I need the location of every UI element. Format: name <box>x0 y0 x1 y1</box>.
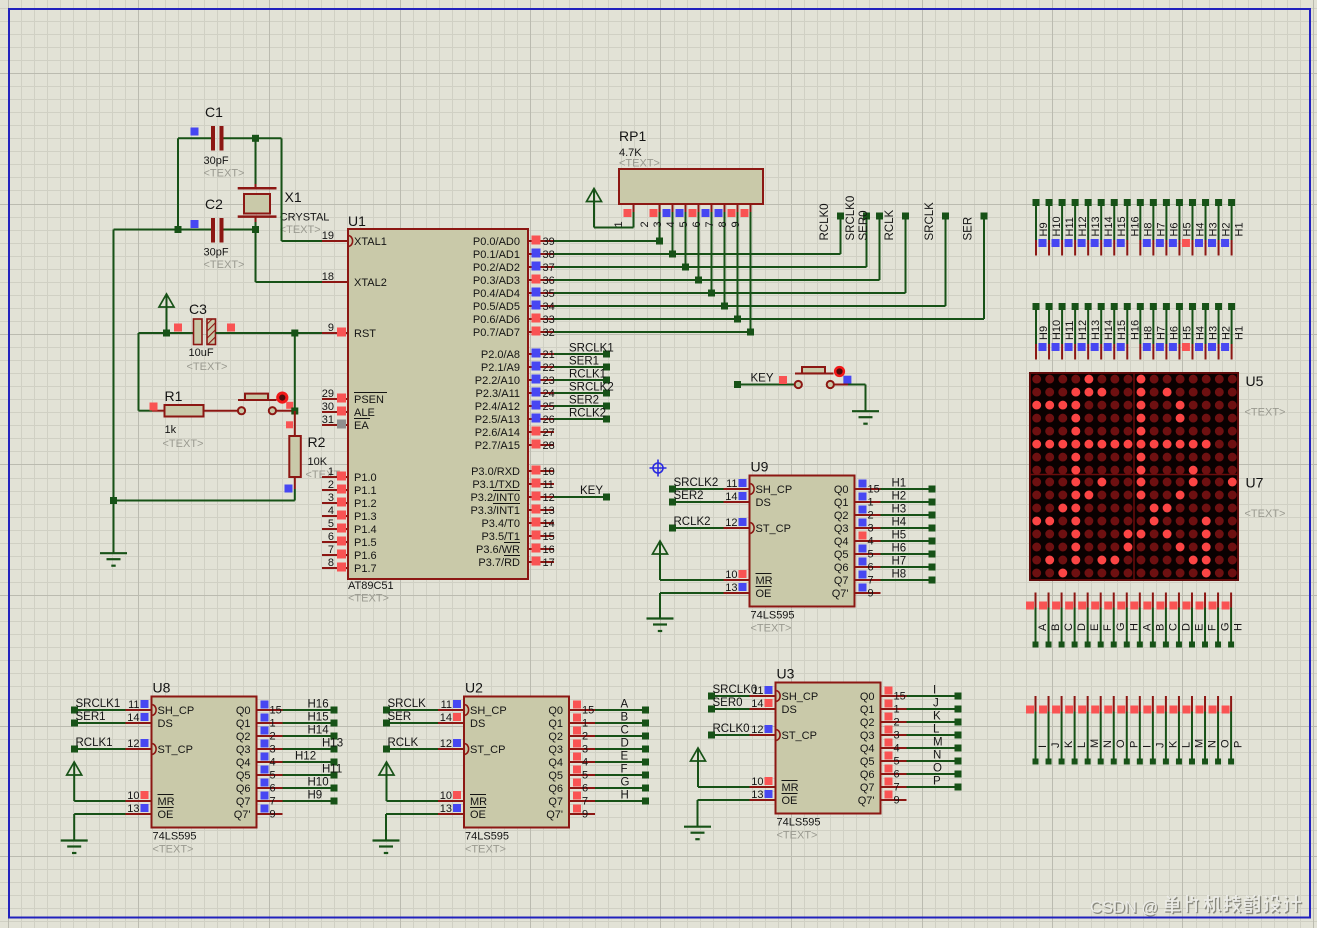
svg-text:G: G <box>1115 622 1127 631</box>
svg-text:E: E <box>1193 624 1205 631</box>
svg-text:10uF: 10uF <box>189 347 214 359</box>
node RCLK0 wire start (U3) <box>708 732 715 739</box>
svg-text:6: 6 <box>691 221 703 227</box>
node C2 state square <box>191 220 199 228</box>
wire net SER riser <box>983 216 985 319</box>
svg-text:<TEXT>: <TEXT> <box>163 438 204 450</box>
pin 6 P1.5 (U1 left) <box>322 531 377 549</box>
svg-text:E: E <box>621 751 629 763</box>
power VCC arrow (reset) <box>159 294 174 333</box>
button RESET toggle marker <box>277 392 288 403</box>
svg-text:7: 7 <box>894 782 900 794</box>
header pin H5 (top group 2) <box>1176 303 1194 360</box>
svg-text:13: 13 <box>543 505 555 517</box>
wire net RCLK0 riser <box>840 216 842 254</box>
node Q6 wire end (U3) <box>955 771 962 778</box>
pin 12 ST_CP (U2) <box>438 738 505 756</box>
wire Q3 net (U3) <box>907 734 959 736</box>
svg-text:27: 27 <box>543 427 555 439</box>
svg-text:RCLK0: RCLK0 <box>713 723 750 735</box>
pin 4 Q4 (U3) <box>860 739 907 756</box>
pin 1 Q1 (U2) <box>548 714 595 731</box>
svg-text:KEY: KEY <box>580 485 603 497</box>
pin 17 P3.7/RD (U1 right) <box>478 556 554 570</box>
svg-text:C: C <box>621 725 629 737</box>
wire OE to ground (U9) <box>660 592 724 594</box>
svg-text:M: M <box>1193 739 1205 748</box>
svg-text:P2.0/A8: P2.0/A8 <box>481 349 520 361</box>
pin 13 OE (U3) <box>750 789 798 807</box>
node P0.3/RP1 junction <box>695 277 702 284</box>
svg-text:P3.2/INT0: P3.2/INT0 <box>470 492 520 504</box>
watermark CSDN <box>1090 895 1302 918</box>
svg-text:MR: MR <box>470 796 487 808</box>
svg-text:34: 34 <box>543 301 555 313</box>
wire net RCLK to U2 <box>387 748 439 750</box>
svg-text:Q3: Q3 <box>860 730 875 742</box>
pin 13 P3.3/INT1 (U1 right) <box>470 504 554 518</box>
connector pin D (matrix row) <box>1169 593 1192 648</box>
svg-text:Q3: Q3 <box>548 744 563 756</box>
ground (U8) <box>61 841 88 854</box>
svg-text:74LS595: 74LS595 <box>777 817 821 829</box>
header pin H3 (top group 1) <box>1202 199 1220 256</box>
svg-text:Q2: Q2 <box>860 717 875 729</box>
svg-text:L: L <box>1076 742 1088 748</box>
svg-text:B: B <box>621 712 629 724</box>
svg-text:ST_CP: ST_CP <box>158 744 193 756</box>
svg-text:SRCLK2: SRCLK2 <box>569 382 614 394</box>
header pin H8 (top group 1) <box>1137 199 1155 256</box>
node P0.6/RP1 junction <box>734 316 741 323</box>
connector pin H (matrix row) <box>1117 593 1140 648</box>
header pin H13 (top group 2) <box>1085 303 1103 360</box>
svg-text:H10: H10 <box>308 777 329 789</box>
svg-text:P0.1/AD1: P0.1/AD1 <box>473 249 520 261</box>
connector pin G (matrix row) <box>1209 593 1232 648</box>
svg-text:3: 3 <box>328 492 334 504</box>
wire net SRCLK riser <box>945 216 947 306</box>
wire RP1 pin 7 drop <box>724 212 726 306</box>
pin 3 (RP1) <box>652 204 673 228</box>
header pin H9 (top group 1) <box>1033 199 1051 256</box>
node SER0 wire start (U3) <box>708 706 715 713</box>
node Q3 wire end (U9) <box>929 525 936 532</box>
node SRCLK0 terminal <box>863 213 870 220</box>
wire P0.0 bus <box>554 240 660 242</box>
pin 15 Q0 (U3) <box>860 687 907 704</box>
wire RP1 pin 5 drop <box>698 212 700 280</box>
svg-text:P3.7/RD: P3.7/RD <box>478 557 520 569</box>
svg-text:Q1: Q1 <box>860 704 875 716</box>
connector pin D (matrix row) <box>1065 593 1088 648</box>
svg-text:H12: H12 <box>295 751 316 763</box>
connector pin L (matrix row) <box>1065 696 1088 765</box>
svg-text:P: P <box>1128 741 1140 748</box>
svg-text:Q7: Q7 <box>860 782 875 794</box>
pin 15 P3.5/T1 (U1 right) <box>481 531 554 544</box>
svg-text:3: 3 <box>582 744 588 756</box>
header pin H11 (top group 1) <box>1059 199 1077 256</box>
pin 3 Q3 (U9) <box>834 519 881 536</box>
wire net SRCLK to U2 <box>387 709 439 711</box>
ground (KEY button) <box>852 411 879 424</box>
node R1 left state square <box>150 403 158 411</box>
node P0.0/RP1 junction <box>656 238 663 245</box>
svg-text:18: 18 <box>322 271 334 283</box>
wire C1 left to C2 rail <box>178 137 212 139</box>
svg-text:XTAL1: XTAL1 <box>354 236 387 248</box>
wire X1 bottom to XTAL2 branch <box>255 222 257 282</box>
svg-text:30pF: 30pF <box>204 247 229 259</box>
svg-text:14: 14 <box>543 518 555 530</box>
svg-text:A: A <box>1141 623 1153 631</box>
svg-text:12: 12 <box>440 738 452 750</box>
svg-text:ST_CP: ST_CP <box>756 523 791 535</box>
node Q0 wire end (U3) <box>955 693 962 700</box>
wire net SRCLK2 (P2.3) <box>554 392 607 394</box>
svg-text:<TEXT>: <TEXT> <box>204 168 245 180</box>
clock marker SH_CP (U8) <box>153 705 157 716</box>
node SRCLK2 wire start (U9) <box>669 486 676 493</box>
svg-text:G: G <box>1220 622 1232 631</box>
pin 30 ALE (U1 left) <box>322 401 375 419</box>
node VCC/RST junction <box>139 332 194 334</box>
svg-text:<TEXT>: <TEXT> <box>777 830 818 842</box>
svg-text:H11: H11 <box>322 764 342 776</box>
pin 19 XTAL1 (U1 left) <box>322 230 387 248</box>
pin 11 SH_CP (U8) <box>126 699 195 717</box>
svg-text:SH_CP: SH_CP <box>158 705 195 717</box>
pin 37 P0.2/AD2 (U1 right) <box>473 262 555 275</box>
wire OE to ground (U3) <box>698 799 750 801</box>
header pin H4 (top group 2) <box>1189 303 1207 360</box>
wire Q1 net (U3) <box>907 708 959 710</box>
svg-text:N: N <box>1207 740 1219 748</box>
node RCLK2 wire start (U9) <box>669 525 676 532</box>
pin 1 Q1 (U9) <box>834 493 881 510</box>
wire Q7 net (U3) <box>907 786 959 788</box>
svg-text:15: 15 <box>270 705 282 717</box>
svg-text:L: L <box>933 724 940 736</box>
svg-text:Q7: Q7 <box>236 796 251 808</box>
svg-text:H: H <box>1233 623 1245 631</box>
header pin H1 (top group 2) <box>1228 303 1246 360</box>
origin marker (blue crosshair) <box>650 460 667 477</box>
capacitor C3 (electrolytic) <box>194 319 216 345</box>
svg-text:13: 13 <box>751 789 763 801</box>
svg-text:ST_CP: ST_CP <box>470 744 505 756</box>
wire net SRCLK1 to U8 <box>75 709 126 711</box>
connector pin A (matrix row) <box>1026 593 1049 648</box>
node ground rail junction <box>110 497 117 504</box>
header pin H5 (top group 1) <box>1176 199 1194 256</box>
connector pin N (matrix row) <box>1091 696 1114 765</box>
svg-text:Q7: Q7 <box>834 575 849 587</box>
svg-text:OE: OE <box>782 795 798 807</box>
IC U2 74LS595 body <box>464 697 569 828</box>
svg-text:SH_CP: SH_CP <box>756 484 793 496</box>
pin 14 DS (U3) <box>750 698 797 716</box>
svg-text:1: 1 <box>868 497 874 509</box>
svg-text:11: 11 <box>128 699 139 711</box>
svg-text:6: 6 <box>894 769 900 781</box>
svg-text:16: 16 <box>543 544 555 556</box>
node Q2 wire end (U2) <box>642 733 649 740</box>
pin 13 OE (U8) <box>126 803 174 821</box>
pin 26 P2.5/A13 (U1 right) <box>475 414 555 427</box>
svg-text:DS: DS <box>782 704 797 716</box>
connector pin L (matrix row) <box>1169 696 1192 765</box>
IC U3 74LS595 body <box>776 683 881 814</box>
svg-text:DS: DS <box>470 718 485 730</box>
wire Q2 net (U3) <box>907 721 959 723</box>
node SER1 wire start (U8) <box>71 720 78 727</box>
svg-text:35: 35 <box>543 288 555 300</box>
node P0.1/RP1 junction <box>669 251 676 258</box>
pin 7 P1.6 (U1 left) <box>322 544 377 562</box>
svg-text:P0.2/AD2: P0.2/AD2 <box>473 262 520 274</box>
header pin H12 (top group 1) <box>1072 199 1090 256</box>
svg-text:U3: U3 <box>777 666 795 682</box>
node Q0 wire end (U9) <box>929 486 936 493</box>
svg-text:D: D <box>621 738 629 750</box>
svg-text:Q7': Q7' <box>858 795 875 807</box>
svg-text:12: 12 <box>751 724 763 736</box>
svg-text:Q4: Q4 <box>834 536 849 548</box>
svg-text:RCLK1: RCLK1 <box>76 737 113 749</box>
header pin H15 (top group 2) <box>1111 303 1129 360</box>
wire Q7 net (U2) <box>595 800 646 802</box>
wire net SER to U2 <box>387 722 439 724</box>
svg-text:C1: C1 <box>205 104 223 120</box>
svg-text:SRCLK0: SRCLK0 <box>713 684 758 696</box>
connector pin M (matrix row) <box>1078 696 1101 765</box>
capacitor C1 <box>211 126 224 151</box>
wire X1 top lead <box>255 138 257 184</box>
svg-text:Q3: Q3 <box>834 523 849 535</box>
wire Q6 net (U8) <box>283 787 335 789</box>
svg-text:P2.5/A13: P2.5/A13 <box>475 414 520 426</box>
IC U1 AT89C51 body <box>348 229 528 579</box>
svg-text:3: 3 <box>652 221 664 227</box>
wire Q5 net (U3) <box>907 760 959 762</box>
svg-text:P0.7/AD7: P0.7/AD7 <box>473 327 520 339</box>
wire XTAL1 branch <box>281 138 283 241</box>
svg-text:13: 13 <box>127 803 139 815</box>
IC U9 74LS595 body <box>750 476 855 607</box>
svg-text:F: F <box>621 764 628 776</box>
svg-text:Q3: Q3 <box>236 744 251 756</box>
node Q0 wire end (U8) <box>331 707 338 714</box>
pin 3 P1.2 (U1 left) <box>322 492 377 510</box>
pin 2 Q2 (U3) <box>860 713 907 730</box>
node Q7 wire end (U8) <box>331 798 338 805</box>
svg-text:ST_CP: ST_CP <box>782 730 817 742</box>
pin 14 P3.4/T0 (U1 right) <box>481 518 554 531</box>
svg-text:R1: R1 <box>165 388 183 404</box>
svg-text:P1.7: P1.7 <box>354 563 377 575</box>
node SER0 terminal <box>876 213 883 220</box>
svg-text:10: 10 <box>725 569 737 581</box>
svg-text:SRCLK1: SRCLK1 <box>76 698 121 710</box>
svg-text:Q7: Q7 <box>548 796 563 808</box>
pin 2 Q2 (U2) <box>548 727 595 744</box>
svg-text:P3.6/WR: P3.6/WR <box>476 544 520 556</box>
svg-text:2: 2 <box>894 717 900 729</box>
svg-text:Q0: Q0 <box>834 484 849 496</box>
svg-text:<TEXT>: <TEXT> <box>204 259 245 271</box>
svg-text:Q0: Q0 <box>548 705 563 717</box>
svg-text:J: J <box>1050 743 1062 749</box>
wire Q4 net (U8) <box>283 761 335 763</box>
header pin H2 (top group 2) <box>1215 303 1233 360</box>
node button/R2 junction <box>291 408 298 415</box>
connector pin O (matrix row) <box>1104 696 1127 765</box>
svg-text:<TEXT>: <TEXT> <box>153 844 194 856</box>
wire Q6 net (U3) <box>907 773 959 775</box>
connector pin B (matrix row) <box>1143 593 1166 648</box>
header pin H1 (top group 1) <box>1228 199 1246 256</box>
svg-text:U5: U5 <box>1246 373 1264 389</box>
svg-text:10: 10 <box>440 790 452 802</box>
svg-text:RCLK1: RCLK1 <box>569 369 606 381</box>
wire P0.4 bus <box>554 292 906 294</box>
pin 3 Q3 (U3) <box>860 726 907 743</box>
node RCLK0 terminal <box>837 213 844 220</box>
header pin H7 (top group 1) <box>1150 199 1168 256</box>
svg-text:E: E <box>1089 624 1101 631</box>
svg-text:5: 5 <box>678 221 690 227</box>
wire net RCLK1 to U8 <box>75 748 126 750</box>
node SRCLK terminal <box>942 213 949 220</box>
pin 12 P3.2/INT0 (U1 right) <box>470 491 554 505</box>
svg-text:2: 2 <box>639 221 651 227</box>
svg-text:U9: U9 <box>751 459 769 475</box>
svg-text:14: 14 <box>751 698 763 710</box>
pin 14 DS (U8) <box>126 712 173 730</box>
wire Q4 net (U9) <box>881 540 933 542</box>
pin 10 MR (U9) <box>724 569 773 587</box>
connector pin I (matrix row) <box>1130 696 1153 765</box>
svg-text:8: 8 <box>717 221 729 227</box>
svg-text:17: 17 <box>543 557 555 569</box>
pin 13 OE (U9) <box>724 582 772 600</box>
node Q0 wire end (U2) <box>642 707 649 714</box>
wire VCC to RP1 pin 1 <box>594 227 634 229</box>
ground (reset rail) <box>100 553 127 566</box>
svg-text:6: 6 <box>328 531 334 543</box>
wire C3 to RST pin <box>216 332 323 334</box>
svg-text:SER: SER <box>963 217 975 241</box>
svg-text:MR: MR <box>756 575 773 587</box>
svg-text:29: 29 <box>322 388 334 400</box>
pin 9 RST (U1 left) <box>322 322 376 340</box>
connector pin H (matrix row) <box>1222 593 1245 648</box>
connector pin C (matrix row) <box>1156 593 1179 648</box>
node C1 state square <box>191 128 199 136</box>
svg-text:H14: H14 <box>308 725 330 737</box>
svg-text:33: 33 <box>543 314 555 326</box>
svg-text:Q6: Q6 <box>834 562 849 574</box>
clock marker ST_CP (U9) <box>751 523 755 534</box>
svg-text:5: 5 <box>270 770 276 782</box>
connector pin E (matrix row) <box>1078 593 1101 648</box>
svg-text:5: 5 <box>894 756 900 768</box>
node Q2 wire end (U3) <box>955 719 962 726</box>
svg-text:U1: U1 <box>348 213 366 229</box>
wire OE to ground (U8) <box>74 813 125 815</box>
power VCC arrow (U8) <box>67 762 82 801</box>
node X1 bottom junction <box>252 226 259 233</box>
pin 12 ST_CP (U8) <box>126 738 193 756</box>
pin 9 Q7' (U2) <box>546 805 595 822</box>
wire net SER0 riser <box>879 216 881 280</box>
svg-text:H6: H6 <box>892 543 907 555</box>
LED matrix dots <box>1032 375 1237 578</box>
wire net SER1 to U8 <box>75 722 126 724</box>
pin 3 Q3 (U2) <box>548 740 595 757</box>
svg-text:8: 8 <box>328 557 334 569</box>
pin 6 Q6 (U2) <box>548 779 595 796</box>
pin 10 MR (U8) <box>126 790 175 808</box>
svg-text:U7: U7 <box>1246 475 1264 491</box>
svg-text:5: 5 <box>868 549 874 561</box>
pin 1 (RP1) <box>613 204 634 228</box>
pin 12 ST_CP (U9) <box>724 517 791 535</box>
svg-text:P3.1/TXD: P3.1/TXD <box>472 479 520 491</box>
wire P0.3 bus <box>554 279 880 281</box>
header pin H14 (top group 1) <box>1098 199 1116 256</box>
svg-text:P0.0/AD0: P0.0/AD0 <box>473 236 520 248</box>
svg-text:P0.3/AD3: P0.3/AD3 <box>473 275 520 287</box>
node P0.5/RP1 junction <box>721 303 728 310</box>
node C3 left state square <box>174 324 182 332</box>
svg-text:39: 39 <box>543 236 555 248</box>
pin 5 Q5 (U9) <box>834 545 881 562</box>
svg-text:H15: H15 <box>308 712 329 724</box>
node Q7 wire end (U3) <box>955 784 962 791</box>
svg-text:36: 36 <box>543 275 555 287</box>
pin 15 Q0 (U8) <box>236 701 283 718</box>
svg-text:DS: DS <box>756 497 771 509</box>
wire Q0 net (U8) <box>283 709 335 711</box>
svg-text:SER1: SER1 <box>569 356 599 368</box>
wire Q7 net (U9) <box>881 579 933 581</box>
svg-text:O: O <box>933 763 942 775</box>
svg-text:P2.4/A12: P2.4/A12 <box>475 401 520 413</box>
wire net SER2 to U9 <box>673 501 724 503</box>
node Q4 wire end (U9) <box>929 538 936 545</box>
svg-text:M: M <box>933 737 943 749</box>
node RCLK terminal <box>902 213 909 220</box>
svg-text:P2.3/A11: P2.3/A11 <box>476 388 520 400</box>
wire net RCLK2 to U9 <box>673 527 724 529</box>
svg-text:Q7': Q7' <box>832 588 849 600</box>
svg-text:H2: H2 <box>892 491 907 503</box>
svg-text:32: 32 <box>543 327 555 339</box>
pin 5 Q5 (U2) <box>548 766 595 783</box>
pin 9 Q7' (U3) <box>858 791 907 808</box>
wire KEY to button <box>738 384 799 386</box>
svg-text:Q1: Q1 <box>834 497 849 509</box>
svg-text:H1: H1 <box>892 478 907 490</box>
pin 21 P2.0/A8 (U1 right) <box>481 349 555 362</box>
svg-text:28: 28 <box>543 440 555 452</box>
connector pin F (matrix row) <box>1196 593 1219 648</box>
svg-text:11: 11 <box>726 478 737 490</box>
svg-text:6: 6 <box>868 562 874 574</box>
